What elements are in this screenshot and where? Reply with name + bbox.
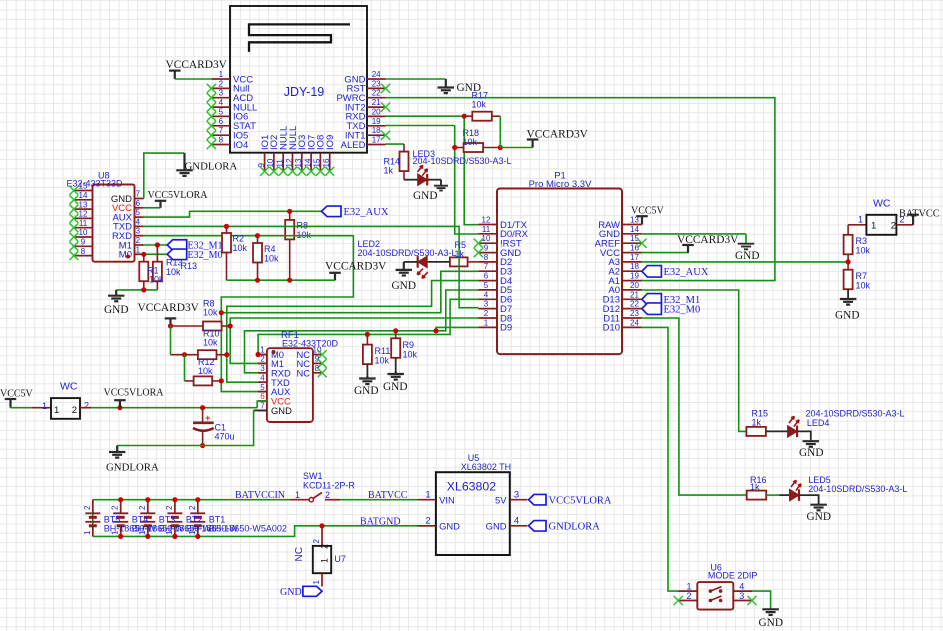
svg-text:14: 14: [79, 191, 88, 200]
svg-text:+: +: [205, 413, 211, 424]
svg-text:XL63802 TH: XL63802 TH: [461, 462, 511, 472]
svg-text:17: 17: [630, 253, 639, 262]
svg-text:10k: 10k: [856, 281, 871, 291]
svg-text:1: 1: [484, 318, 489, 327]
svg-text:10: 10: [266, 158, 275, 167]
svg-text:11: 11: [276, 159, 285, 168]
svg-text:LED4: LED4: [807, 418, 830, 428]
svg-text:470u: 470u: [215, 432, 235, 442]
svg-text:E32_M0: E32_M0: [188, 250, 223, 261]
svg-text:GNDLORA: GNDLORA: [549, 522, 601, 533]
svg-text:20: 20: [630, 281, 639, 290]
svg-text:GND: GND: [735, 250, 759, 262]
svg-text:2: 2: [84, 401, 89, 411]
svg-text:21: 21: [630, 290, 639, 299]
svg-text:19: 19: [372, 117, 381, 126]
svg-text:10k: 10k: [233, 243, 248, 253]
svg-text:1: 1: [83, 530, 92, 535]
svg-text:1: 1: [136, 245, 141, 254]
svg-text:2: 2: [484, 309, 489, 318]
svg-text:2: 2: [891, 221, 896, 232]
svg-text:1: 1: [219, 70, 224, 79]
svg-text:NC: NC: [296, 367, 310, 378]
svg-text:R8: R8: [297, 221, 309, 231]
svg-text:GND: GND: [280, 587, 302, 598]
svg-text:9: 9: [81, 238, 86, 247]
svg-text:1: 1: [320, 558, 330, 563]
svg-text:U7: U7: [334, 554, 346, 564]
svg-text:GND: GND: [104, 304, 128, 316]
svg-text:204-10SDRD/S530-A3-L: 204-10SDRD/S530-A3-L: [358, 248, 457, 258]
svg-text:XL63802: XL63802: [447, 480, 496, 494]
svg-text:8: 8: [81, 247, 86, 256]
svg-text:MODE 2DIP: MODE 2DIP: [708, 571, 758, 581]
svg-text:10k: 10k: [264, 254, 279, 264]
svg-text:SW1: SW1: [303, 471, 323, 481]
svg-text:10k: 10k: [472, 100, 487, 110]
svg-text:3: 3: [260, 364, 265, 373]
svg-text:23: 23: [372, 79, 381, 88]
svg-text:VCCARD3V: VCCARD3V: [677, 234, 739, 246]
svg-text:18: 18: [372, 126, 381, 135]
svg-text:2: 2: [312, 539, 321, 544]
svg-text:2: 2: [320, 544, 330, 549]
svg-text:10k: 10k: [403, 350, 418, 360]
svg-text:5: 5: [484, 281, 489, 290]
svg-text:6: 6: [219, 117, 224, 126]
svg-text:3: 3: [484, 300, 489, 309]
svg-text:10k: 10k: [203, 338, 218, 348]
svg-text:WC: WC: [873, 198, 891, 210]
svg-text:R2: R2: [233, 234, 245, 244]
svg-text:4: 4: [514, 516, 519, 527]
svg-text:NC: NC: [294, 547, 305, 561]
svg-text:BATGND: BATGND: [360, 517, 401, 528]
svg-text:2: 2: [72, 405, 77, 416]
svg-text:19: 19: [630, 272, 639, 281]
svg-text:10k: 10k: [198, 366, 213, 376]
svg-text:GND: GND: [759, 617, 783, 629]
svg-text:12: 12: [79, 210, 88, 219]
svg-text:3: 3: [514, 490, 519, 501]
svg-text:13: 13: [79, 200, 88, 209]
svg-text:M0: M0: [119, 250, 132, 261]
svg-text:GND: GND: [486, 520, 507, 531]
svg-text:VCCARD3V: VCCARD3V: [527, 128, 589, 140]
svg-text:16: 16: [322, 158, 331, 167]
svg-text:E32-433T33D: E32-433T33D: [67, 179, 124, 189]
svg-text:GND: GND: [383, 381, 407, 393]
svg-text:4: 4: [739, 581, 744, 591]
svg-text:3: 3: [136, 227, 141, 236]
svg-text:3: 3: [739, 591, 744, 601]
svg-text:1: 1: [260, 346, 265, 355]
svg-text:17: 17: [372, 136, 381, 145]
svg-text:E32_M0: E32_M0: [664, 304, 701, 315]
svg-text:WC: WC: [60, 381, 78, 393]
svg-text:2: 2: [219, 79, 224, 88]
svg-text:23: 23: [630, 309, 639, 318]
svg-text:4: 4: [484, 290, 489, 299]
svg-text:20: 20: [372, 107, 381, 116]
svg-text:9: 9: [257, 163, 266, 168]
svg-text:1: 1: [858, 215, 863, 225]
svg-text:VCCARD3V: VCCARD3V: [325, 261, 387, 273]
svg-text:15: 15: [313, 158, 322, 167]
svg-text:1: 1: [312, 580, 321, 585]
svg-text:BH-18650-W5A002: BH-18650-W5A002: [209, 524, 287, 534]
svg-text:7: 7: [219, 126, 224, 135]
svg-text:VCCARD3V: VCCARD3V: [166, 59, 228, 71]
svg-text:R9: R9: [403, 340, 415, 350]
svg-text:6: 6: [136, 199, 141, 208]
svg-text:4: 4: [219, 98, 224, 107]
svg-text:VCC5VLORA: VCC5VLORA: [104, 388, 165, 399]
svg-text:GND: GND: [354, 385, 378, 397]
svg-text:BATVCC: BATVCC: [899, 209, 940, 220]
svg-text:E32_AUX: E32_AUX: [664, 267, 709, 278]
svg-text:D10: D10: [603, 323, 620, 334]
svg-text:R11: R11: [375, 346, 391, 356]
svg-text:10k: 10k: [463, 137, 478, 147]
svg-text:VCC5VLORA: VCC5VLORA: [549, 496, 612, 507]
svg-text:24: 24: [372, 70, 381, 79]
svg-text:14: 14: [303, 158, 312, 167]
svg-text:JDY-19: JDY-19: [284, 85, 325, 99]
svg-text:E32_AUX: E32_AUX: [344, 207, 389, 218]
svg-text:10k: 10k: [856, 246, 871, 256]
svg-text:18: 18: [630, 262, 639, 271]
svg-text:Pro Micro 3.3V: Pro Micro 3.3V: [529, 179, 592, 190]
svg-text:7: 7: [484, 262, 489, 271]
svg-text:2: 2: [138, 505, 147, 510]
svg-text:GNDLORA: GNDLORA: [106, 462, 159, 474]
svg-text:VCCARD3V: VCCARD3V: [138, 302, 200, 314]
svg-text:204-10SDRD/S530-A3-L: 204-10SDRD/S530-A3-L: [808, 484, 907, 494]
svg-text:10k: 10k: [375, 356, 390, 366]
svg-text:ALED: ALED: [341, 140, 366, 151]
svg-text:21: 21: [372, 98, 381, 107]
svg-text:5: 5: [260, 383, 265, 392]
svg-text:1k: 1k: [752, 418, 762, 428]
svg-text:1: 1: [425, 490, 430, 501]
svg-text:R7: R7: [856, 271, 868, 281]
svg-text:KCD11-2P-R: KCD11-2P-R: [303, 481, 355, 491]
svg-text:7: 7: [136, 190, 141, 199]
svg-text:2: 2: [260, 355, 265, 364]
svg-text:9: 9: [315, 355, 320, 364]
svg-text:22: 22: [630, 300, 639, 309]
svg-text:8: 8: [315, 364, 320, 373]
svg-text:1k: 1k: [384, 166, 394, 176]
svg-text:15: 15: [79, 182, 88, 191]
svg-text:1: 1: [42, 401, 47, 411]
svg-text:12: 12: [285, 158, 294, 167]
svg-text:VCC5V: VCC5V: [0, 389, 34, 400]
svg-text:R13: R13: [181, 261, 198, 271]
svg-text:2: 2: [325, 490, 330, 500]
svg-text:8: 8: [219, 136, 224, 145]
svg-text:14: 14: [630, 225, 639, 234]
svg-text:6: 6: [260, 392, 265, 401]
svg-text:24: 24: [630, 318, 639, 327]
svg-text:3: 3: [219, 89, 224, 98]
svg-text:1: 1: [871, 221, 876, 232]
svg-text:E32-433T20D: E32-433T20D: [282, 338, 339, 348]
svg-text:IO4: IO4: [233, 140, 248, 151]
svg-text:1: 1: [686, 581, 691, 591]
svg-text:10k: 10k: [149, 275, 164, 285]
svg-text:2: 2: [425, 516, 430, 527]
svg-text:10k: 10k: [166, 267, 181, 277]
svg-text:VIN: VIN: [439, 494, 455, 505]
svg-text:GND: GND: [799, 447, 823, 459]
svg-text:GND: GND: [392, 280, 416, 292]
svg-text:GND: GND: [835, 310, 859, 322]
svg-text:GND: GND: [271, 405, 292, 416]
svg-text:IO9: IO9: [325, 135, 336, 150]
svg-text:12: 12: [482, 216, 491, 225]
svg-text:R3: R3: [856, 236, 868, 246]
svg-text:2: 2: [111, 505, 120, 510]
svg-text:22: 22: [372, 89, 381, 98]
svg-text:1k: 1k: [750, 482, 760, 492]
svg-text:1: 1: [54, 405, 59, 416]
svg-text:9: 9: [484, 244, 489, 253]
svg-text:8: 8: [484, 253, 489, 262]
svg-text:7: 7: [260, 402, 265, 411]
svg-text:VCC5V: VCC5V: [631, 206, 665, 217]
svg-text:6: 6: [484, 272, 489, 281]
svg-text:2: 2: [686, 591, 691, 601]
svg-text:5: 5: [136, 208, 141, 217]
svg-text:2: 2: [188, 505, 197, 510]
svg-text:D9: D9: [500, 323, 512, 334]
svg-text:2: 2: [83, 505, 92, 510]
svg-text:R4: R4: [264, 244, 276, 254]
svg-text:1: 1: [295, 490, 300, 500]
svg-text:2: 2: [136, 236, 141, 245]
svg-text:4: 4: [136, 217, 141, 226]
svg-text:BATVCCIN: BATVCCIN: [235, 490, 285, 501]
svg-text:10: 10: [79, 228, 88, 237]
svg-text:VCC5VLORA: VCC5VLORA: [148, 190, 209, 201]
svg-text:GND: GND: [807, 511, 831, 523]
svg-text:5V: 5V: [495, 494, 507, 505]
svg-text:204-10SDRD/S530-A3-L: 204-10SDRD/S530-A3-L: [413, 156, 512, 166]
svg-text:13: 13: [294, 158, 303, 167]
svg-text:11: 11: [482, 225, 491, 234]
svg-text:2: 2: [165, 505, 174, 510]
svg-text:GNDLORA: GNDLORA: [185, 160, 238, 172]
svg-text:10k: 10k: [203, 308, 218, 318]
svg-text:GND: GND: [413, 190, 437, 202]
svg-text:5: 5: [219, 107, 224, 116]
svg-text:GND: GND: [439, 520, 460, 531]
svg-text:11: 11: [79, 219, 88, 228]
svg-text:4: 4: [260, 373, 265, 382]
